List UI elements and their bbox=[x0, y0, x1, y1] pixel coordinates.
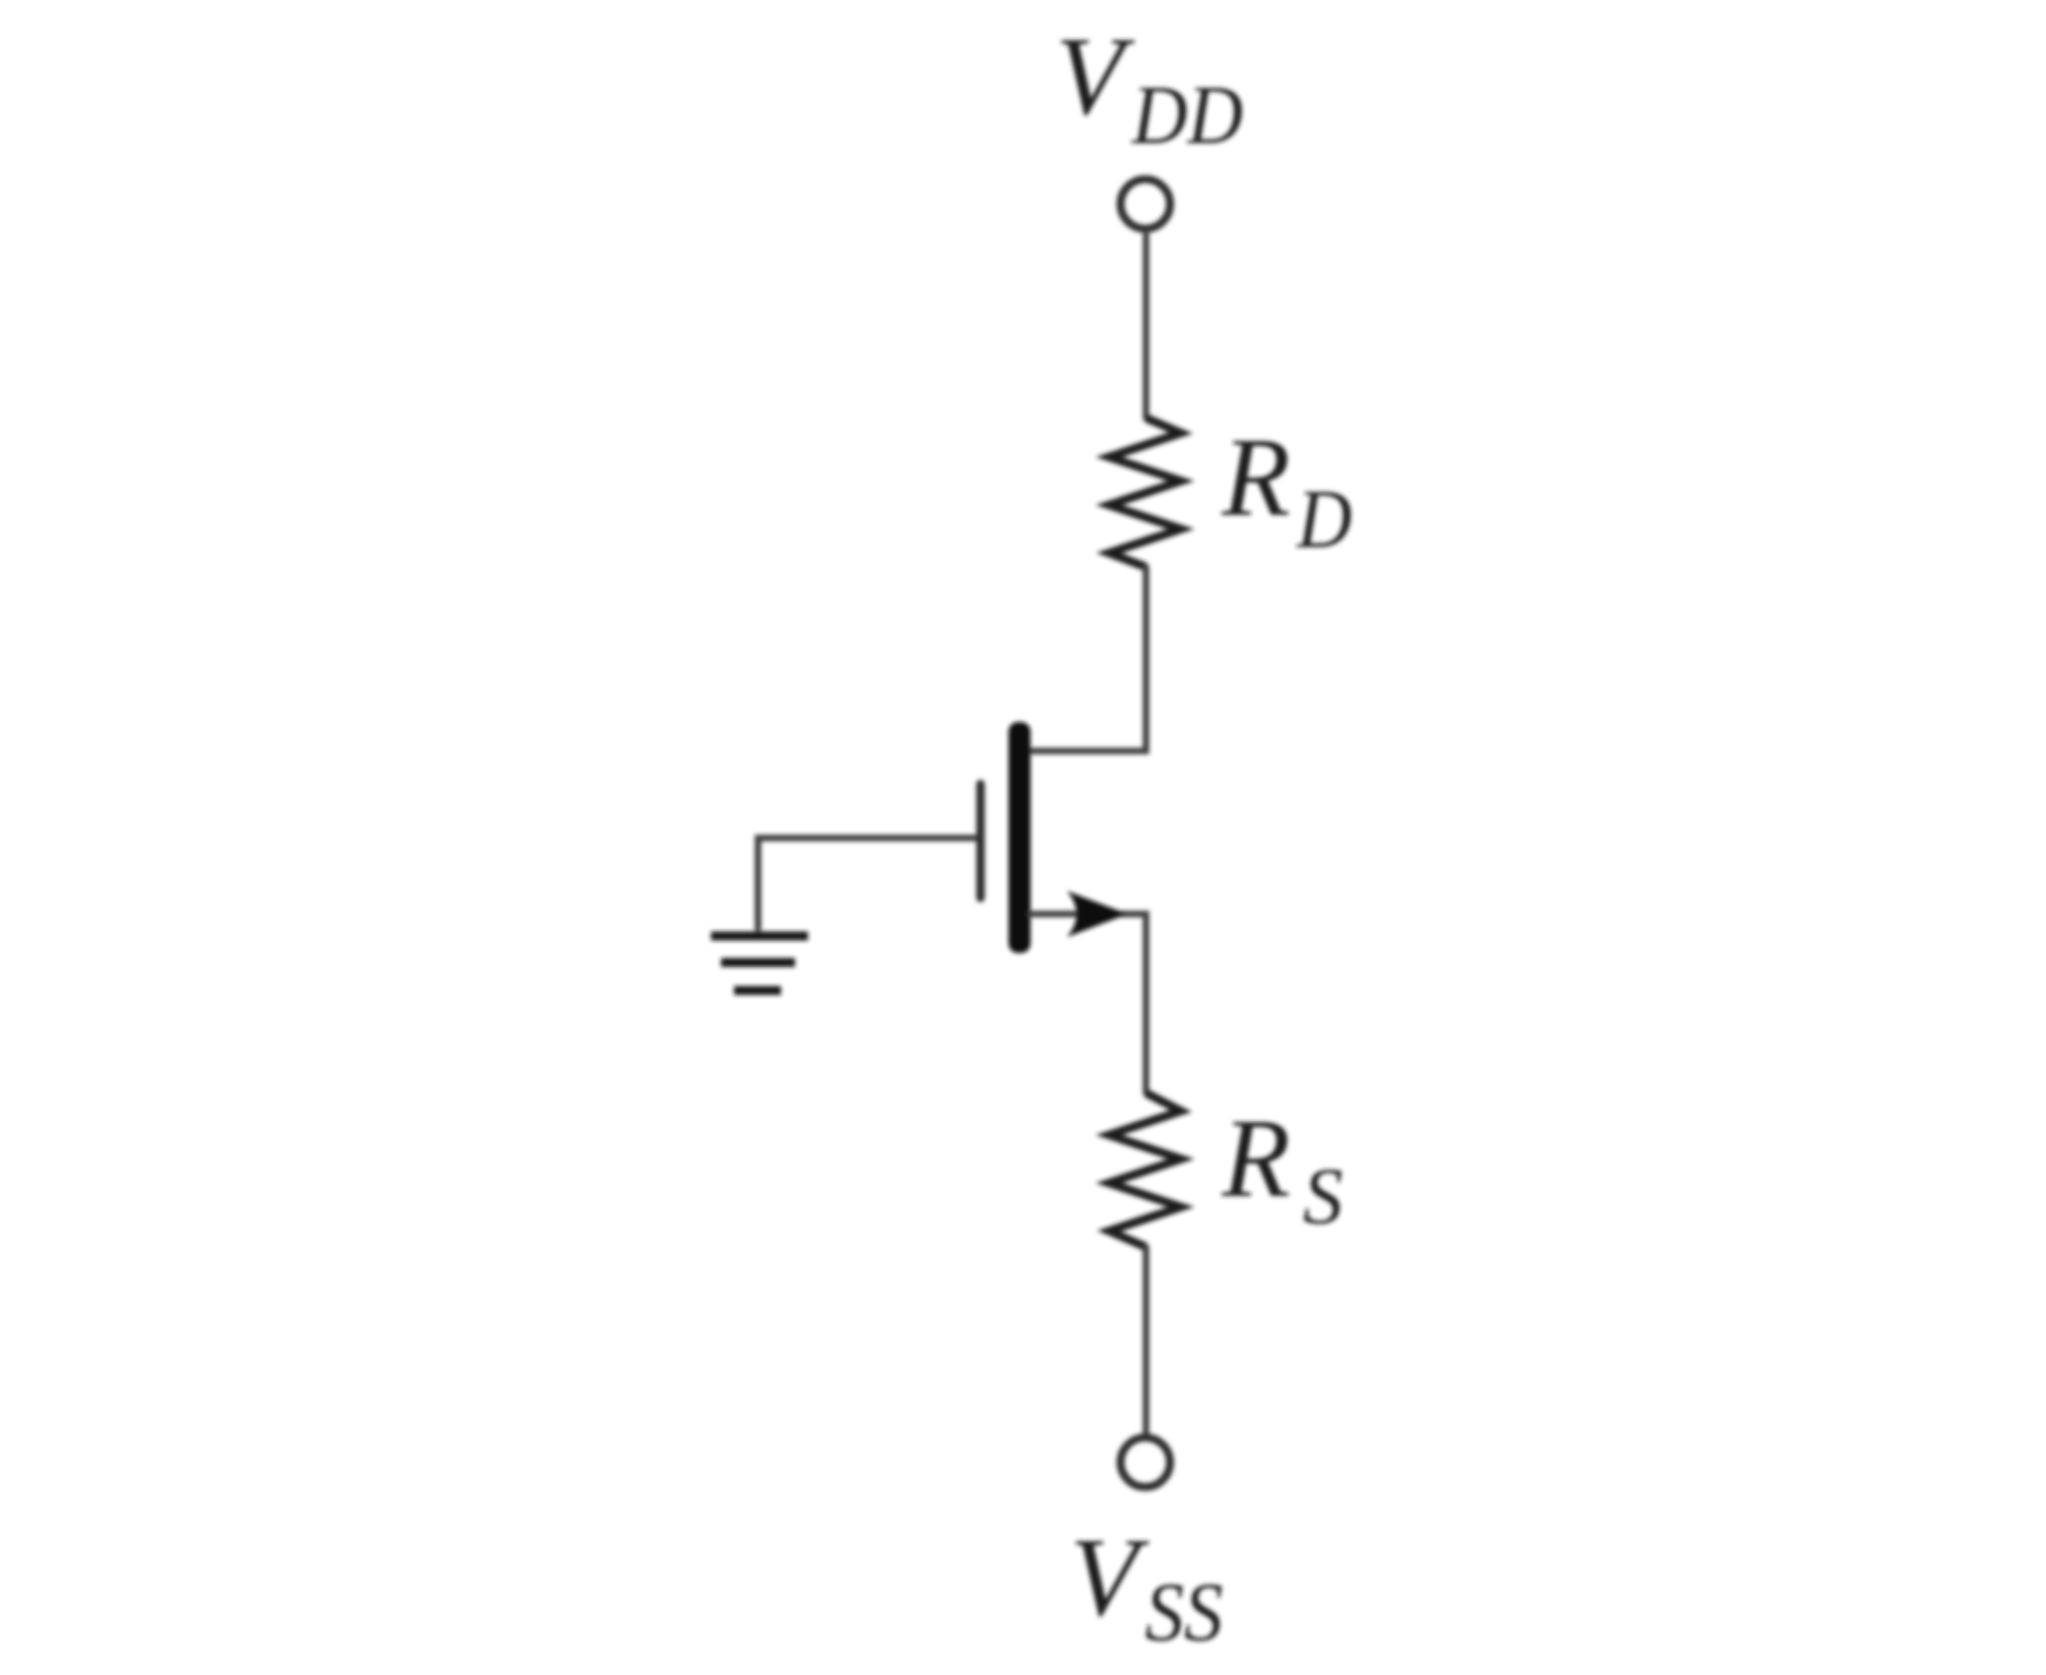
svg-text:SS: SS bbox=[1145, 1566, 1223, 1659]
svg-text:D: D bbox=[1296, 473, 1352, 566]
svg-text:DD: DD bbox=[1131, 69, 1243, 162]
svg-text:S: S bbox=[1303, 1153, 1343, 1241]
svg-text:V: V bbox=[1056, 15, 1136, 139]
svg-text:V: V bbox=[1070, 1516, 1150, 1640]
svg-text:R: R bbox=[1221, 416, 1290, 540]
svg-text:R: R bbox=[1221, 1097, 1290, 1221]
